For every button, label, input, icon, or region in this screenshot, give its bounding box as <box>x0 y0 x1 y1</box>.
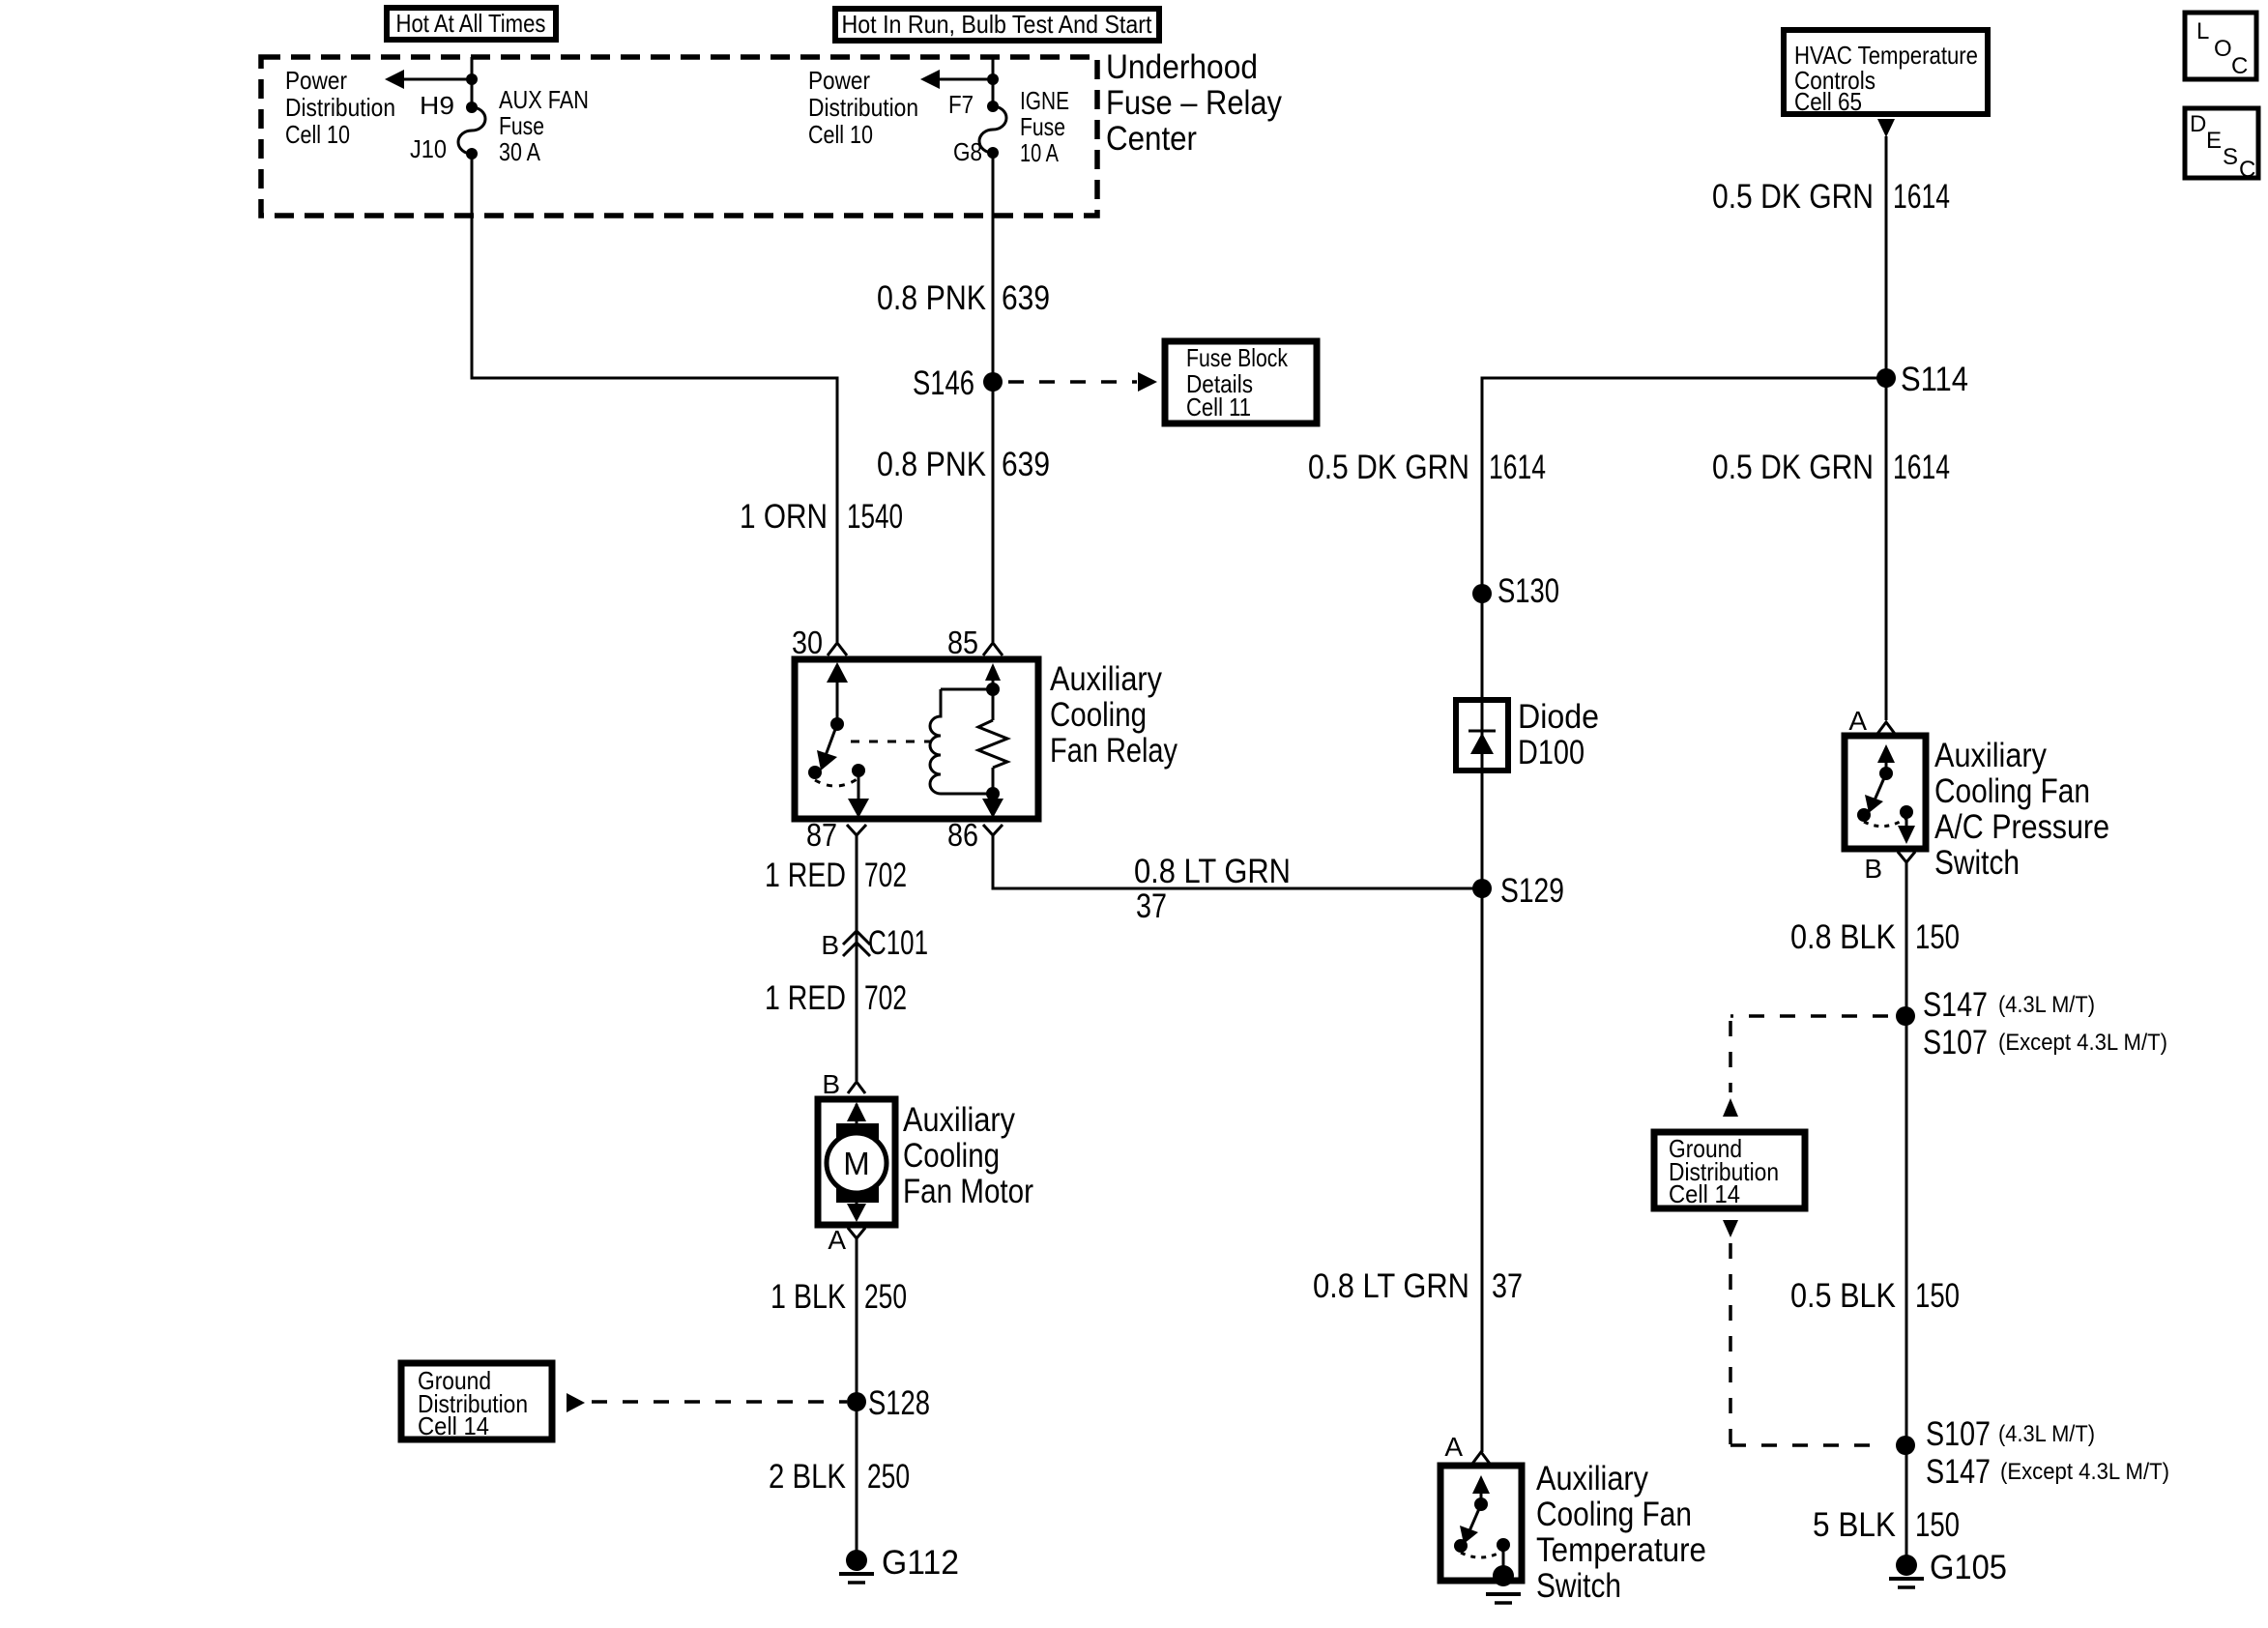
relay resistor (parallel with coil) <box>978 663 1007 818</box>
label box: HVAC Temperature Controls Cell 65 <box>1784 30 1988 116</box>
label: Diode D100 <box>1518 698 1599 771</box>
relay switch contact (to pin 87) <box>808 766 822 779</box>
svg-text:G8: G8 <box>953 137 982 166</box>
label: 1 RED 702 (upper) <box>765 857 907 894</box>
wire: ignition feed stub (middle) <box>992 57 995 106</box>
label: Auxiliary Cooling Fan Relay <box>1050 660 1178 770</box>
label: 5 BLK 150 <box>1813 1506 1960 1544</box>
node S128 <box>847 1384 930 1422</box>
svg-text:Cell 10: Cell 10 <box>285 120 350 149</box>
label box: LOC <box>2185 13 2256 79</box>
svg-text:702: 702 <box>864 857 907 894</box>
svg-text:Hot At All Times: Hot At All Times <box>396 9 546 38</box>
relay switch dashed throw arc <box>815 778 858 786</box>
wire: dashed reference upper splice to Ground Distribution (right) <box>1723 1016 1888 1117</box>
pin A (A/C pressure switch) <box>1848 706 1895 736</box>
svg-text:250: 250 <box>864 1278 907 1316</box>
svg-text:(4.3L M/T): (4.3L M/T) <box>1998 1421 2095 1447</box>
svg-text:AUX FAN: AUX FAN <box>499 85 589 114</box>
label box: Hot In Run, Bulb Test And Start <box>835 9 1159 41</box>
label: 0.8 PNK 639 (lower) <box>877 446 1050 483</box>
label: 0.5 DK GRN 1614 (top right) <box>1712 178 1950 216</box>
svg-text:1 ORN: 1 ORN <box>740 498 828 536</box>
relay switch common arrow (pin 30 side) <box>827 662 848 731</box>
svg-text:0.8 PNK: 0.8 PNK <box>877 279 986 317</box>
node S114 <box>1876 361 1968 398</box>
pin 87 <box>806 817 866 853</box>
svg-text:O: O <box>2214 36 2232 62</box>
svg-text:S147: S147 <box>1923 986 1988 1024</box>
svg-text:C101: C101 <box>868 924 928 962</box>
svg-text:Cooling Fan: Cooling Fan <box>1934 772 2090 810</box>
wire: 0.8 LT GRN 37 from relay pin 86 to S129 <box>993 835 1482 888</box>
switch: Auxiliary Cooling Fan Temperature Switch <box>1440 1466 1522 1581</box>
svg-text:Underhood: Underhood <box>1106 48 1258 86</box>
wire: 0.8 PNK 639 from fuse G8 to relay pin 85 <box>992 153 995 642</box>
svg-text:Cell 14: Cell 14 <box>418 1411 489 1440</box>
svg-text:1 RED: 1 RED <box>765 857 846 894</box>
svg-text:S130: S130 <box>1497 572 1559 610</box>
svg-text:A: A <box>1444 1432 1463 1462</box>
pin 86 <box>947 817 1003 853</box>
label: Power Distribution Cell 10 (middle) <box>808 66 918 149</box>
ground (temperature switch case) <box>1486 1565 1521 1603</box>
wire: 0.5 DK GRN 1614 from S114 run left and down to temperature switch <box>1482 378 1886 1452</box>
connector C101 pin B <box>821 924 928 962</box>
node S147 / S107 (upper splice) <box>1896 986 2167 1061</box>
svg-text:37: 37 <box>1136 887 1167 925</box>
svg-text:702: 702 <box>864 979 907 1017</box>
svg-text:S147: S147 <box>1926 1453 1991 1491</box>
svg-text:A: A <box>828 1225 846 1255</box>
label: 0.8 BLK 150 <box>1790 918 1960 956</box>
label box: DESC <box>2185 108 2258 183</box>
label box: Fuse Block Details Cell 11 <box>1165 341 1317 423</box>
node: junction to power distribution (left) <box>466 73 478 85</box>
wire: dashed reference from Ground Distribution to S128 <box>567 1393 847 1412</box>
svg-text:Diode: Diode <box>1518 698 1599 736</box>
svg-text:H9: H9 <box>420 91 454 120</box>
svg-text:S107: S107 <box>1923 1024 1988 1061</box>
svg-text:5 BLK: 5 BLK <box>1813 1506 1896 1544</box>
label: 0.8 LT GRN 37 (horizontal run) <box>1134 853 1291 925</box>
svg-text:D100: D100 <box>1518 734 1585 771</box>
ground G105 <box>1889 1549 2007 1587</box>
relay switch contact second <box>852 764 865 777</box>
label: 1 RED 702 (lower) <box>765 979 907 1017</box>
svg-text:Auxiliary: Auxiliary <box>1536 1460 1648 1497</box>
fuse: AUX FAN Fuse 30 A <box>458 85 589 166</box>
node: coil bottom junction <box>986 787 1000 800</box>
switch: Auxiliary Cooling Fan A/C Pressure Switch <box>1845 736 1926 849</box>
svg-text:Distribution: Distribution <box>285 93 395 122</box>
wire: 1 BLK 250 from motor pin A to S128 <box>856 1238 858 1560</box>
wire: arrow to power distribution (middle) <box>920 70 993 89</box>
svg-text:0.5 BLK: 0.5 BLK <box>1790 1277 1896 1315</box>
label: Auxiliary Cooling Fan Motor <box>903 1101 1033 1210</box>
svg-text:Fuse Block: Fuse Block <box>1186 343 1289 372</box>
label: 0.8 LT GRN 37 (temperature switch branch) <box>1313 1267 1523 1305</box>
svg-text:250: 250 <box>867 1458 910 1496</box>
svg-text:86: 86 <box>947 817 978 853</box>
wire: arrow to power distribution (left) <box>385 70 472 89</box>
svg-text:C: C <box>2239 157 2255 183</box>
svg-text:Cooling: Cooling <box>1050 696 1147 734</box>
label: 2 BLK 250 <box>769 1458 910 1496</box>
svg-text:0.8 LT GRN: 0.8 LT GRN <box>1134 853 1291 890</box>
pin B (A/C pressure switch) <box>1864 852 1915 884</box>
svg-text:A: A <box>1848 706 1867 736</box>
wire: 0.8 BLK 150 from pressure switch pin B to G105 <box>1905 862 1908 1565</box>
svg-text:87: 87 <box>806 817 837 853</box>
svg-text:Fuse: Fuse <box>1020 112 1065 141</box>
svg-text:B: B <box>821 930 839 960</box>
svg-text:Switch: Switch <box>1536 1567 1621 1605</box>
wire: 1 ORN 1540 from fuse J10 to relay pin 30 <box>472 154 837 642</box>
label: 0.5 DK GRN 1614 (right branch) <box>1712 449 1950 486</box>
svg-text:Cooling: Cooling <box>903 1137 1000 1175</box>
svg-text:S128: S128 <box>868 1384 930 1422</box>
pin B (motor) <box>822 1069 865 1099</box>
svg-text:Cell 11: Cell 11 <box>1186 392 1251 422</box>
svg-text:Auxiliary: Auxiliary <box>1050 660 1162 698</box>
relay actuation dashed link <box>851 741 930 743</box>
wire: 1 RED 702 from relay pin 87 to C101 <box>856 835 858 1081</box>
svg-text:(4.3L M/T): (4.3L M/T) <box>1998 992 2095 1018</box>
wire: dashed reference arrow S146 to Fuse Block Details <box>1008 372 1157 392</box>
svg-text:Cooling Fan: Cooling Fan <box>1536 1496 1692 1533</box>
pin 85 <box>947 625 1003 660</box>
relay: Auxiliary Cooling Fan Relay <box>795 659 1038 819</box>
svg-text:C: C <box>2231 53 2248 79</box>
svg-text:1614: 1614 <box>1893 178 1950 216</box>
svg-text:0.8 BLK: 0.8 BLK <box>1790 918 1896 956</box>
svg-text:85: 85 <box>947 625 978 660</box>
svg-text:0.5 DK GRN: 0.5 DK GRN <box>1712 449 1874 486</box>
label box: Hot At All Times <box>387 8 556 40</box>
pin J10 <box>410 134 478 163</box>
svg-text:Center: Center <box>1106 120 1197 158</box>
svg-text:150: 150 <box>1915 1506 1960 1544</box>
wire: feed from HVAC temperature controls (arrow into wire) <box>1877 119 1895 720</box>
diode D100 <box>1456 700 1508 770</box>
svg-text:Hot In Run, Bulb Test And Star: Hot In Run, Bulb Test And Start <box>842 10 1153 39</box>
svg-text:1614: 1614 <box>1489 449 1546 486</box>
svg-text:Fan Motor: Fan Motor <box>903 1173 1033 1210</box>
svg-text:Power: Power <box>285 66 347 95</box>
svg-text:Fuse – Relay: Fuse – Relay <box>1106 84 1282 122</box>
svg-text:F7: F7 <box>948 90 974 119</box>
relay coil <box>930 689 993 794</box>
svg-text:1614: 1614 <box>1893 449 1950 486</box>
node: junction to power distribution (middle) <box>987 73 999 85</box>
svg-text:(Except 4.3L M/T): (Except 4.3L M/T) <box>1998 1030 2167 1056</box>
label: Underhood Fuse - Relay Center <box>1106 48 1282 158</box>
label: 0.8 PNK 639 (upper) <box>877 279 1050 317</box>
ground G112 <box>839 1544 959 1583</box>
label: 1 BLK 250 <box>771 1278 907 1316</box>
label: 0.5 DK GRN 1614 (left branch) <box>1308 449 1546 486</box>
svg-text:S: S <box>2223 144 2238 170</box>
svg-text:Fuse: Fuse <box>499 111 544 140</box>
svg-text:2 BLK: 2 BLK <box>769 1458 846 1496</box>
svg-text:L: L <box>2196 18 2209 44</box>
node: coil top junction <box>986 683 1000 696</box>
node S146 <box>913 364 1003 402</box>
svg-text:1 RED: 1 RED <box>765 979 846 1017</box>
svg-text:Auxiliary: Auxiliary <box>903 1101 1015 1139</box>
svg-text:S107: S107 <box>1926 1415 1991 1453</box>
svg-text:S146: S146 <box>913 364 974 402</box>
pin G8 <box>953 137 999 166</box>
svg-text:1540: 1540 <box>847 498 903 536</box>
label: Auxiliary Cooling Fan A/C Pressure Switch <box>1934 737 2109 882</box>
svg-text:0.5 DK GRN: 0.5 DK GRN <box>1308 449 1469 486</box>
label: Power Distribution Cell 10 (left) <box>285 66 395 149</box>
pin 30 <box>792 625 847 660</box>
relay switch arm <box>817 724 837 770</box>
wire: dashed reference Ground Distribution (right) to lower splice <box>1723 1220 1885 1445</box>
relay switch output arrow to pin 87 <box>848 770 869 818</box>
pin A (temperature switch) <box>1444 1432 1490 1464</box>
svg-text:0.8 LT GRN: 0.8 LT GRN <box>1313 1267 1469 1305</box>
svg-text:E: E <box>2206 128 2222 154</box>
svg-text:639: 639 <box>1002 446 1050 483</box>
label box: Ground Distribution Cell 14 (right) <box>1654 1132 1805 1208</box>
svg-text:IGNE: IGNE <box>1020 86 1069 115</box>
svg-text:Cell 65: Cell 65 <box>1794 87 1862 116</box>
svg-text:Power: Power <box>808 66 870 95</box>
pin F7 <box>948 90 999 119</box>
label: 1 ORN 1540 <box>740 498 903 536</box>
motor: Auxiliary Cooling Fan Motor <box>818 1099 895 1225</box>
fuse: IGNE Fuse 10 A <box>979 86 1069 167</box>
svg-text:(Except 4.3L M/T): (Except 4.3L M/T) <box>2000 1459 2169 1485</box>
svg-text:Distribution: Distribution <box>808 93 918 122</box>
svg-text:1 BLK: 1 BLK <box>771 1278 846 1316</box>
wire: battery feed stub (left) <box>471 57 474 107</box>
svg-text:Cell 14: Cell 14 <box>1669 1179 1740 1208</box>
svg-text:D: D <box>2190 111 2206 137</box>
svg-text:0.8 PNK: 0.8 PNK <box>877 446 986 483</box>
svg-text:A/C Pressure: A/C Pressure <box>1934 808 2109 846</box>
svg-text:G105: G105 <box>1930 1549 2007 1586</box>
svg-text:Auxiliary: Auxiliary <box>1934 737 2047 774</box>
label: Auxiliary Cooling Fan Temperature Switch <box>1536 1460 1706 1605</box>
dashed box: Underhood Fuse - Relay Center <box>261 57 1097 216</box>
node S130 <box>1472 572 1559 610</box>
svg-text:Cell 10: Cell 10 <box>808 120 873 149</box>
label: 0.5 BLK 150 <box>1790 1277 1960 1315</box>
svg-text:Fan Relay: Fan Relay <box>1050 732 1178 770</box>
node S107 / S147 (lower splice) <box>1896 1415 2169 1491</box>
svg-text:30 A: 30 A <box>499 137 541 166</box>
svg-text:10 A: 10 A <box>1020 138 1059 167</box>
svg-text:B: B <box>1864 854 1882 884</box>
svg-text:150: 150 <box>1915 918 1960 956</box>
svg-text:J10: J10 <box>410 134 447 163</box>
node S129 <box>1472 872 1564 910</box>
svg-text:M: M <box>843 1146 870 1181</box>
svg-text:Switch: Switch <box>1934 844 2020 882</box>
svg-text:S114: S114 <box>1901 361 1968 398</box>
label box: Ground Distribution Cell 14 (left) <box>401 1363 552 1440</box>
svg-text:G112: G112 <box>882 1544 959 1582</box>
pin A (motor) <box>828 1225 865 1255</box>
svg-text:Temperature: Temperature <box>1536 1531 1706 1569</box>
svg-text:639: 639 <box>1002 279 1050 317</box>
pin H9 <box>420 91 478 120</box>
svg-text:30: 30 <box>792 625 823 660</box>
svg-text:S129: S129 <box>1500 872 1564 910</box>
svg-text:0.5 DK GRN: 0.5 DK GRN <box>1712 178 1874 216</box>
svg-text:B: B <box>822 1069 840 1099</box>
svg-text:37: 37 <box>1492 1267 1523 1305</box>
svg-text:150: 150 <box>1915 1277 1960 1315</box>
